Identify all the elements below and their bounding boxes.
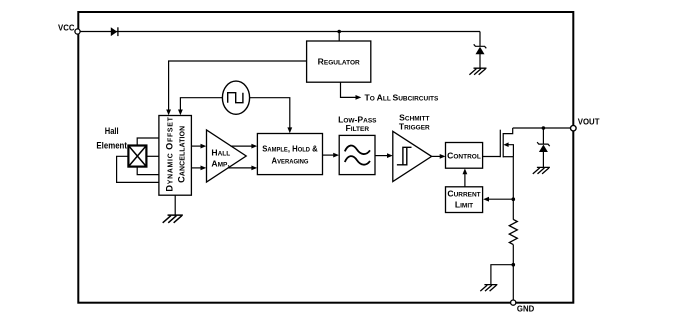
ground below branch	[480, 285, 497, 292]
wire sample-hold to low-pass filter	[323, 153, 340, 158]
node ground branch junction	[512, 263, 516, 267]
wire schmitt trigger to control	[432, 154, 446, 159]
zener diode D3	[537, 142, 550, 152]
wire dynamic offset cancellation to ground	[174, 195, 176, 215]
wire junction to regulator top	[338, 32, 340, 42]
oscillator clock symbol	[222, 81, 249, 114]
svg-text:FILTER: FILTER	[346, 123, 370, 133]
svg-text:REGULATOR: REGULATOR	[318, 57, 360, 67]
svg-text:GND: GND	[517, 305, 535, 314]
svg-text:CANCELLATION: CANCELLATION	[177, 126, 187, 183]
wire MOSFET source down	[512, 157, 514, 220]
svg-text:VOUT: VOUT	[578, 117, 600, 126]
sample hold and averaging block	[257, 134, 322, 175]
wire sense to current limit	[483, 197, 513, 202]
wire oscillator to dynamic offset cancellation	[178, 98, 222, 116]
control block	[446, 143, 483, 169]
ground below zener D2	[469, 68, 486, 75]
svg-text:CURRENT: CURRENT	[447, 189, 480, 199]
wire zener D2 to ground	[479, 54, 481, 68]
node VCC-regulator junction	[337, 30, 341, 34]
hall element X1 crossed square	[128, 146, 146, 167]
ground below dynamic offset cancellation	[163, 215, 183, 223]
svg-text:CONTROL: CONTROL	[447, 150, 481, 160]
terminal GND	[511, 300, 535, 314]
svg-text:TO ALL SUBCIRCUITS: TO ALL SUBCIRCUITS	[365, 92, 439, 102]
wire hall bottom contact	[137, 167, 159, 175]
regulator block	[307, 41, 371, 82]
dynamic offset cancellation block	[159, 116, 192, 196]
wire control to MOSFET gate	[483, 156, 501, 158]
wire zener D3 to ground	[542, 152, 544, 168]
low-pass filter label	[338, 114, 377, 133]
node current limit sense junction	[512, 197, 516, 201]
diode D1 on VCC rail	[111, 27, 118, 36]
IC outline box	[78, 12, 573, 303]
svg-text:AVERAGING: AVERAGING	[272, 156, 309, 166]
current limit block	[446, 187, 483, 213]
wire regulator output to all subcircuits	[341, 82, 439, 102]
svg-text:TRIGGER: TRIGGER	[399, 122, 430, 132]
wire hall amp to sample-hold upper	[231, 144, 258, 149]
wire hall left contact	[117, 156, 159, 182]
low-pass filter block	[339, 135, 375, 174]
terminal VCC	[75, 29, 80, 34]
zener diode D2	[474, 44, 487, 54]
wire branch to ground	[491, 265, 513, 285]
svg-text:VCC: VCC	[58, 24, 75, 33]
wire regulator input from dynamic offset cancellation	[166, 61, 306, 115]
terminal VOUT	[571, 117, 600, 131]
wire resistor to GND	[512, 245, 514, 301]
wire DOC to hall amp lower	[191, 166, 206, 171]
hall amp A1	[207, 130, 247, 182]
wire hall right contact	[146, 155, 159, 157]
ground below zener D3	[533, 167, 550, 174]
svg-text:SAMPLE, HOLD &: SAMPLE, HOLD &	[262, 144, 318, 154]
svg-text:LOW-PASS: LOW-PASS	[338, 114, 377, 124]
wire DOC to hall amp upper	[191, 144, 206, 149]
schmitt trigger U2	[393, 131, 432, 181]
wire low-pass filter to schmitt trigger	[375, 153, 393, 158]
wire to zener D3	[542, 128, 544, 144]
wire VCC rail	[80, 31, 480, 33]
wire VCC rail corner down to zener	[479, 32, 481, 47]
wire hall amp to sample-hold lower	[228, 166, 257, 171]
svg-text:LIMIT: LIMIT	[455, 199, 473, 209]
Hall element label	[96, 126, 127, 151]
wire current limit to control	[463, 168, 468, 186]
schmitt trigger label	[399, 112, 430, 131]
wire MOSFET drain to VOUT	[513, 127, 571, 129]
svg-text:DYNAMIC OFFSET: DYNAMIC OFFSET	[165, 116, 175, 191]
svg-text:Element: Element	[96, 140, 127, 150]
resistor R1	[509, 219, 517, 244]
wire hall top contact	[137, 138, 159, 146]
node drain-zener junction	[542, 126, 546, 130]
wire oscillator to sample-hold	[250, 98, 293, 134]
svg-text:Hall: Hall	[105, 126, 119, 136]
transistor Q1 MOSFET	[500, 128, 513, 157]
